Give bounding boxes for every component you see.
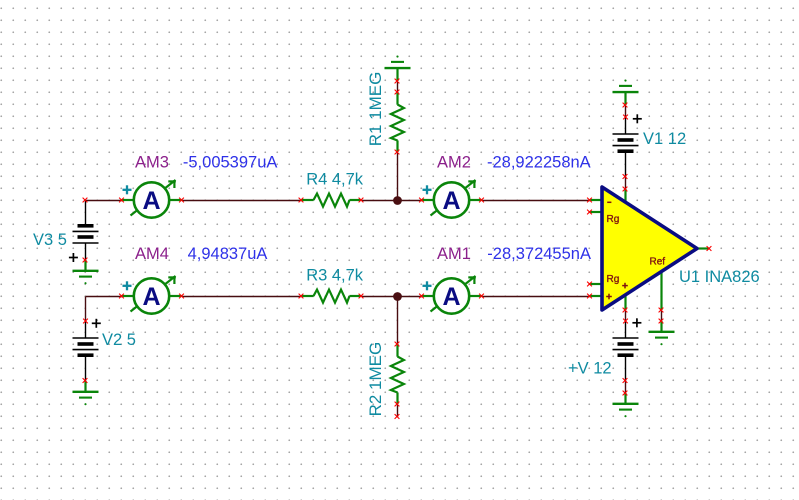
svg-text:-28,922258nA: -28,922258nA <box>487 154 591 172</box>
svg-text:-28,372455nA: -28,372455nA <box>487 245 591 263</box>
svg-text:R4 4,7k: R4 4,7k <box>306 170 364 188</box>
svg-text:AM4: AM4 <box>135 245 169 263</box>
svg-text:Rg: Rg <box>607 214 620 225</box>
svg-text:Rg: Rg <box>607 274 620 285</box>
svg-text:AM1: AM1 <box>437 245 471 263</box>
svg-text:V2 5: V2 5 <box>102 331 136 349</box>
svg-text:AM3: AM3 <box>135 154 169 172</box>
svg-text:-5,005397uA: -5,005397uA <box>183 154 278 172</box>
svg-text:V1 12: V1 12 <box>643 130 686 148</box>
svg-text:V3 5: V3 5 <box>33 231 67 249</box>
svg-text:U1 INA826: U1 INA826 <box>679 268 760 286</box>
svg-text:Ref: Ref <box>650 257 666 268</box>
svg-text:R3 4,7k: R3 4,7k <box>306 266 364 284</box>
svg-text:R1 1MEG: R1 1MEG <box>366 72 385 147</box>
svg-text:R2 1MEG: R2 1MEG <box>366 342 385 417</box>
svg-text:4,94837uA: 4,94837uA <box>188 245 268 263</box>
svg-text:+V 12: +V 12 <box>568 360 612 378</box>
svg-text:AM2: AM2 <box>437 154 471 172</box>
